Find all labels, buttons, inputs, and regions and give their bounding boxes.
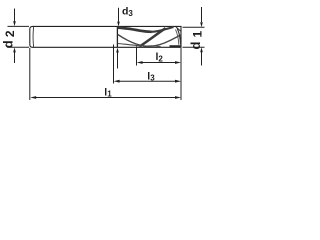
l3 left arrow xyxy=(114,80,120,83)
l3 dimension line xyxy=(118,80,176,82)
d2 top arrow xyxy=(13,21,16,26)
flute arc S1 top shallow U xyxy=(118,28,152,32)
dimension l3: extension line left xyxy=(113,45,115,84)
end-face inner tooth line xyxy=(176,30,179,45)
svg-text:d3: d3 xyxy=(122,6,133,18)
d1 top arrow xyxy=(200,22,203,27)
l1 dimension line xyxy=(35,97,177,99)
flute arc S3 deep U xyxy=(118,35,181,47)
bottom edge scallop xyxy=(143,46,161,47)
flute arc S4 low flat xyxy=(118,44,142,47)
shank end inner arc xyxy=(32,27,35,47)
flute arc S1 right rise xyxy=(152,27,174,32)
d2 bottom arrow xyxy=(13,47,16,52)
d3 top arrow xyxy=(117,22,120,27)
l2 left arrow xyxy=(137,61,143,64)
l1 left arrow xyxy=(30,96,36,99)
l1/l2/l3 shared right extension line xyxy=(180,48,182,100)
l1 left extension line xyxy=(29,48,31,100)
dimension d1: extension lines xyxy=(183,7,205,66)
d3 bottom arrow xyxy=(116,48,119,53)
svg-text:l2: l2 xyxy=(156,51,164,63)
l3 right arrow xyxy=(175,80,181,83)
svg-text:d1: d1 xyxy=(188,31,204,50)
end-face gash line xyxy=(177,28,180,44)
end-face corner chamfer xyxy=(176,27,181,32)
d1 bottom arrow xyxy=(200,47,203,52)
tool body outline (shank + cutter) xyxy=(30,26,181,47)
flute start step line xyxy=(116,26,118,47)
svg-text:d2: d2 xyxy=(1,30,17,48)
dimension d2: line and arrows xyxy=(7,9,29,64)
dimension l2: extension line left xyxy=(136,46,138,65)
svg-text:l3: l3 xyxy=(147,70,155,82)
l1 right arrow xyxy=(175,96,181,99)
dimension d3: line and arrows xyxy=(118,8,119,69)
end-face dark bottom band xyxy=(170,45,182,47)
svg-text:l1: l1 xyxy=(104,86,112,98)
flute band A steep diagonal xyxy=(140,28,166,46)
l2 right arrow xyxy=(175,61,181,64)
l2 dimension line xyxy=(141,62,177,64)
